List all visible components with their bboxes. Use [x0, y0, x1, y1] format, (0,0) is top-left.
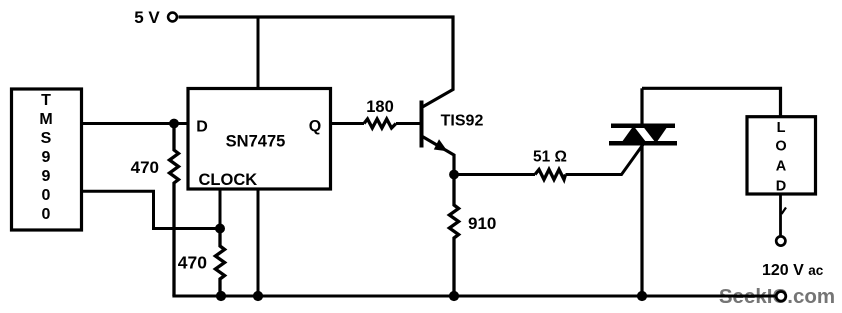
svg-text:D: D [776, 179, 786, 195]
svg-text:51 Ω: 51 Ω [533, 149, 567, 166]
block TMS9900 [12, 89, 82, 230]
svg-text:5 V: 5 V [134, 8, 160, 27]
node emitter junction dot [449, 170, 459, 180]
svg-text:9: 9 [42, 149, 51, 166]
transistor Q1 TIS92 [422, 16, 484, 173]
svg-text:T: T [41, 92, 51, 109]
svg-text:180: 180 [366, 98, 394, 116]
svg-text:9: 9 [42, 168, 51, 185]
wire Q output [331, 122, 365, 125]
wire bottom rail [172, 294, 776, 297]
wire TMS9900 to D input [82, 122, 189, 125]
node rail dot at SN7475 ground [253, 291, 263, 301]
wire base [396, 122, 420, 125]
resistor 470 (upper) [131, 124, 179, 297]
svg-text:TIS92: TIS92 [441, 113, 484, 130]
wire SN7475 Vcc drop [257, 16, 260, 90]
node rail dot at 470 [216, 291, 226, 301]
wire LOAD to ac terminal [779, 194, 782, 236]
svg-text:L: L [777, 120, 786, 136]
node rail dot at triac [637, 291, 647, 301]
svg-text:S: S [41, 130, 52, 147]
resistor 51 ohm [533, 149, 567, 180]
node D junction dot [169, 119, 179, 129]
terminal circle 120V ac (lower, rail end) [776, 292, 786, 302]
wire gate to triac [566, 145, 644, 175]
svg-text:910: 910 [468, 214, 496, 233]
terminal circle 120V ac (upper) [776, 236, 785, 245]
svg-text:Q: Q [309, 118, 321, 135]
wire SN7475 ground pin [257, 189, 260, 296]
svg-text:A: A [776, 159, 787, 175]
resistor 470 (lower) [178, 229, 225, 297]
wire TMS9900 to clock (step wire) [82, 191, 218, 228]
svg-text:470: 470 [131, 158, 159, 177]
tick mark on load wire [782, 208, 787, 215]
triac [609, 88, 677, 296]
resistor 910 [449, 175, 496, 297]
svg-text:D: D [196, 119, 208, 136]
wire CLOCK pin [219, 189, 222, 229]
svg-text:0: 0 [42, 206, 51, 223]
svg-text:O: O [775, 139, 786, 155]
svg-text:120 V ac: 120 V ac [762, 262, 824, 279]
block SN7475 [188, 89, 331, 190]
wire triac to load [642, 88, 781, 118]
wire top 5V rail [179, 15, 455, 18]
block LOAD [747, 117, 816, 195]
svg-text:SN7475: SN7475 [226, 133, 286, 151]
svg-text:0: 0 [42, 187, 51, 204]
node rail dot at 910 [449, 291, 459, 301]
svg-text:M: M [39, 111, 52, 128]
power terminal 5V circle [168, 13, 177, 22]
svg-text:CLOCK: CLOCK [199, 171, 258, 189]
node clock junction dot [215, 224, 225, 234]
resistor 180 [364, 98, 396, 128]
svg-text:470: 470 [178, 253, 207, 273]
wire emitter to 51 ohm [454, 173, 535, 176]
